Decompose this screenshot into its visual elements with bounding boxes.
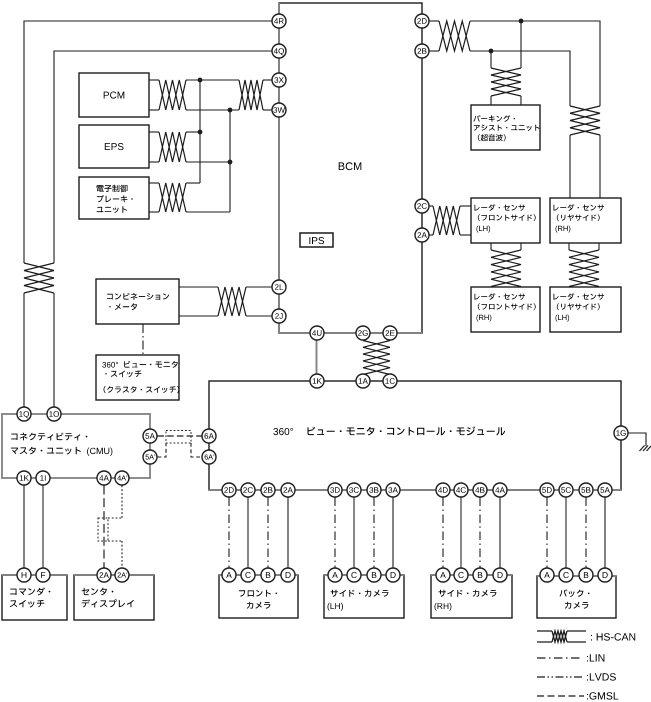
wire meter to 2L — [179, 286, 218, 288]
legend HS-CAN twisted pair symbol — [537, 631, 635, 642]
wire brake CAN-L to bus — [186, 211, 230, 213]
connector B front camera — [261, 568, 275, 582]
label radar rear LH — [554, 293, 605, 321]
connector D front camera — [281, 568, 295, 582]
connector 5D module — [540, 483, 554, 497]
connector B side camera RH — [473, 568, 487, 582]
wire parking drop H — [520, 21, 522, 68]
connector C front camera — [241, 568, 255, 582]
wire LVDS 4A' upper — [121, 486, 123, 519]
connector B back camera — [579, 568, 593, 582]
ECU EPS — [79, 125, 149, 168]
wire brake CAN-H — [149, 182, 159, 184]
connector 1A module — [356, 374, 370, 388]
wire 4U to 1K — [316, 340, 318, 374]
wire radar RH chain a — [568, 243, 570, 250]
connector 5A module — [598, 483, 612, 497]
junction CAN-L PCM tap — [228, 108, 233, 113]
360 view monitor switch — [96, 355, 179, 400]
side camera LH — [324, 575, 404, 618]
wire radar RH chain b — [598, 243, 600, 250]
wire LIN side camera LH B — [373, 498, 375, 569]
connector D back camera — [598, 568, 612, 582]
wire side camera RH C — [460, 498, 462, 569]
connector 4R — [272, 14, 286, 28]
wire brake CAN-L — [149, 211, 159, 213]
connector 1K CMU — [17, 471, 31, 485]
connector 4C module — [454, 483, 468, 497]
connector 3A module — [386, 483, 400, 497]
wire LIN side camera RH D — [442, 498, 444, 569]
wire bus to 3X — [263, 79, 272, 81]
parking assist unit — [471, 105, 540, 150]
connector 5B module — [579, 483, 593, 497]
connector F — [36, 568, 50, 582]
BCM bottom connector bus — [279, 332, 422, 334]
360 view monitor control module — [209, 381, 621, 490]
wire back camera C — [565, 498, 567, 569]
connector 2C module — [241, 483, 255, 497]
wire EPS CAN-L to bus — [186, 161, 230, 163]
connector 6A prime — [202, 450, 216, 464]
LVDS shield rect 5A-6A — [166, 431, 191, 444]
wire LIN front camera D — [228, 498, 230, 569]
wire front camera A — [287, 498, 289, 569]
wire GMSL 5A to 6A — [158, 435, 202, 437]
radar sensor rear-side RH — [550, 198, 621, 243]
connector H — [17, 568, 31, 582]
wire 4Q to 1O (CAN-L run) — [54, 51, 272, 263]
wire 2D CAN-H bus — [470, 21, 600, 106]
connector C side camera RH — [454, 568, 468, 582]
wire 5A' dash b — [191, 443, 202, 457]
connector 2B BCM — [415, 44, 429, 58]
connector 2G — [356, 326, 370, 340]
wire 1G to ground — [628, 433, 646, 446]
wire PCM CAN-L — [149, 109, 159, 111]
connector D side camera LH — [386, 568, 400, 582]
twisted pair CMU trunk — [24, 263, 54, 293]
commander switch — [2, 575, 67, 620]
connectivity master unit CMU — [2, 414, 150, 478]
wire radar LH chain a — [490, 243, 492, 250]
junction tap parking CAN-L — [489, 49, 494, 54]
label center display — [82, 588, 134, 608]
connector A front camera — [222, 568, 236, 582]
twisted pair bus to 3X/3W — [239, 80, 263, 110]
wire 1I to F — [42, 486, 44, 569]
connector 5C module — [559, 483, 573, 497]
wire 4Q to 1O lower — [53, 293, 55, 407]
connector 1G — [614, 426, 628, 440]
wire LIN side camera RH B — [479, 498, 481, 569]
connector D side camera RH — [493, 568, 507, 582]
connector 3C module — [347, 483, 361, 497]
connector 1Q — [17, 407, 31, 421]
connector 4U — [310, 326, 324, 340]
wire CAN-L vertical bus — [229, 110, 231, 212]
wire meter twist to 2L — [246, 286, 272, 288]
front camera — [219, 575, 298, 618]
power supply IPS — [300, 233, 333, 247]
label back camera — [560, 589, 590, 608]
connector 3B module — [367, 483, 381, 497]
wire radar LH chain b — [520, 243, 522, 250]
legend GMSL — [537, 692, 618, 699]
label parking assist unit — [473, 115, 539, 141]
label radar front RH — [475, 293, 536, 321]
connector 1O — [47, 407, 61, 421]
wire meter twist to 2J — [246, 315, 272, 317]
twisted pair BCM sensors — [439, 21, 470, 51]
twisted pair radar front — [433, 206, 460, 235]
twisted pair radar front chain — [491, 250, 521, 287]
label radar front LH — [475, 204, 536, 232]
ECU PCM — [79, 73, 149, 117]
connector 3W — [272, 103, 286, 117]
wire EPS CAN-L — [149, 161, 159, 163]
connector 1I CMU — [36, 471, 50, 485]
connector 2A prime display — [115, 568, 129, 582]
label commander switch — [10, 587, 50, 607]
label side camera LH — [328, 590, 389, 611]
back camera — [537, 576, 616, 618]
BCM left connector bus — [278, 3, 280, 333]
wire parking drop L lower — [490, 96, 492, 105]
legend LVDS — [537, 673, 616, 680]
connector 5A prime CMU — [143, 450, 157, 464]
wire parking drop L — [490, 51, 492, 68]
twisted pair rear radar — [570, 106, 600, 135]
label radar rear RH — [554, 204, 605, 232]
connector 2D BCM — [415, 14, 429, 28]
wire PCM CAN-H — [149, 79, 159, 81]
side camera RH — [431, 575, 512, 618]
wire 2D CAN-H — [429, 20, 439, 22]
wire IPS to 4U — [316, 247, 318, 326]
wire parking drop H lower — [520, 96, 522, 105]
ECU electric brake unit — [79, 177, 149, 219]
wire back camera A — [604, 498, 606, 569]
junction CAN-H PCM tap — [198, 78, 203, 83]
connector 2A BCM — [415, 228, 429, 242]
radar sensor front-side LH — [471, 198, 540, 243]
connector C back camera — [559, 568, 573, 582]
connector 3X — [272, 73, 286, 87]
wire CAN-H vertical bus — [199, 80, 201, 183]
wire EPS CAN-H — [149, 131, 159, 133]
connector A side camera LH — [328, 568, 342, 582]
connector 1K module — [310, 374, 324, 388]
wire LIN meter to switch — [142, 324, 144, 355]
wire side camera LH A — [392, 498, 394, 569]
legend LIN — [537, 654, 604, 661]
module bottom connector bus — [209, 489, 621, 491]
label view monitor switch — [102, 361, 179, 393]
label CMU — [11, 433, 113, 456]
wire 2C twist to radar — [460, 205, 471, 207]
label view monitor control module — [273, 426, 505, 435]
connector 2E — [383, 326, 397, 340]
wire LIN side camera LH D — [334, 498, 336, 569]
connector C side camera LH — [347, 568, 361, 582]
wire 2B CAN-L bus — [470, 51, 570, 106]
connector 5A CMU — [143, 429, 157, 443]
twisted pair radar rear chain — [569, 250, 599, 287]
connector 4A CMU — [97, 471, 111, 485]
wire bus to 3W — [263, 109, 272, 111]
connector 6A — [202, 429, 216, 443]
connector 2A display — [97, 568, 111, 582]
wire brake CAN-H to bus — [186, 182, 200, 184]
label front camera — [239, 590, 277, 609]
wire PCM CAN-L bus — [186, 109, 239, 111]
connector 2B module — [261, 483, 275, 497]
wire LIN back camera B — [585, 498, 587, 569]
connector 4A module — [493, 483, 507, 497]
connector 2D module — [222, 483, 236, 497]
wire 4R to 1Q lower — [23, 293, 25, 407]
wire side camera LH C — [353, 498, 355, 569]
wire 2A twist to radar — [460, 234, 471, 236]
connector 3D module — [328, 483, 342, 497]
wire GMSL 4A to 2A — [103, 486, 105, 569]
wire meter to 2J — [179, 315, 218, 317]
connector 4D module — [436, 483, 450, 497]
connector 4A prime CMU — [115, 471, 129, 485]
connector A side camera RH — [436, 568, 450, 582]
wire 5A' dash a — [158, 443, 167, 457]
connector 4B module — [473, 483, 487, 497]
LVDS crossover detour 4A' — [98, 518, 122, 541]
wire 2A to radar — [429, 234, 433, 236]
wire rear radar drop L — [569, 135, 571, 198]
label combination meter — [107, 293, 169, 310]
center display — [74, 575, 154, 620]
label side camera RH — [435, 590, 497, 611]
wire 4R to 1Q (CAN-H run) — [24, 21, 272, 263]
wire 2B CAN-L — [429, 50, 439, 52]
connector A back camera — [540, 568, 554, 582]
wire front camera C — [247, 498, 249, 569]
twisted pair combination meter — [218, 287, 246, 316]
ground — [640, 446, 651, 452]
connector B side camera LH — [367, 568, 381, 582]
twisted pair BCM to view monitor module — [363, 341, 390, 375]
wire 1K to H — [23, 486, 25, 569]
connector 2C BCM — [415, 199, 429, 213]
label brake unit — [97, 185, 133, 213]
wire EPS CAN-H to bus — [186, 131, 200, 133]
wire rear radar drop H — [599, 135, 601, 198]
wire side camera RH A — [499, 498, 501, 569]
connector 2L — [272, 280, 286, 294]
connector 1C module — [383, 374, 397, 388]
combination meter — [96, 279, 179, 324]
junction CAN-H EPS tap — [198, 130, 203, 135]
ECU BCM — [279, 3, 422, 333]
twisted pair EPS — [159, 132, 186, 162]
junction CAN-L EPS tap — [228, 160, 233, 165]
junction tap parking CAN-H — [519, 19, 524, 24]
wire 2C to radar — [429, 205, 433, 207]
twisted pair brake unit — [159, 183, 186, 212]
radar sensor rear-side LH — [550, 287, 621, 332]
connector 2A module — [281, 483, 295, 497]
connector 4Q — [272, 44, 286, 58]
wire LVDS 4A' lower — [121, 541, 123, 568]
wire PCM CAN-H bus — [186, 79, 239, 81]
twisted pair PCM — [159, 80, 186, 110]
wire LIN back camera D — [546, 498, 548, 569]
connector 2J — [272, 309, 286, 323]
twisted pair parking assist — [491, 68, 521, 96]
radar sensor front-side RH — [471, 287, 540, 332]
wire LIN front camera B — [267, 498, 269, 569]
